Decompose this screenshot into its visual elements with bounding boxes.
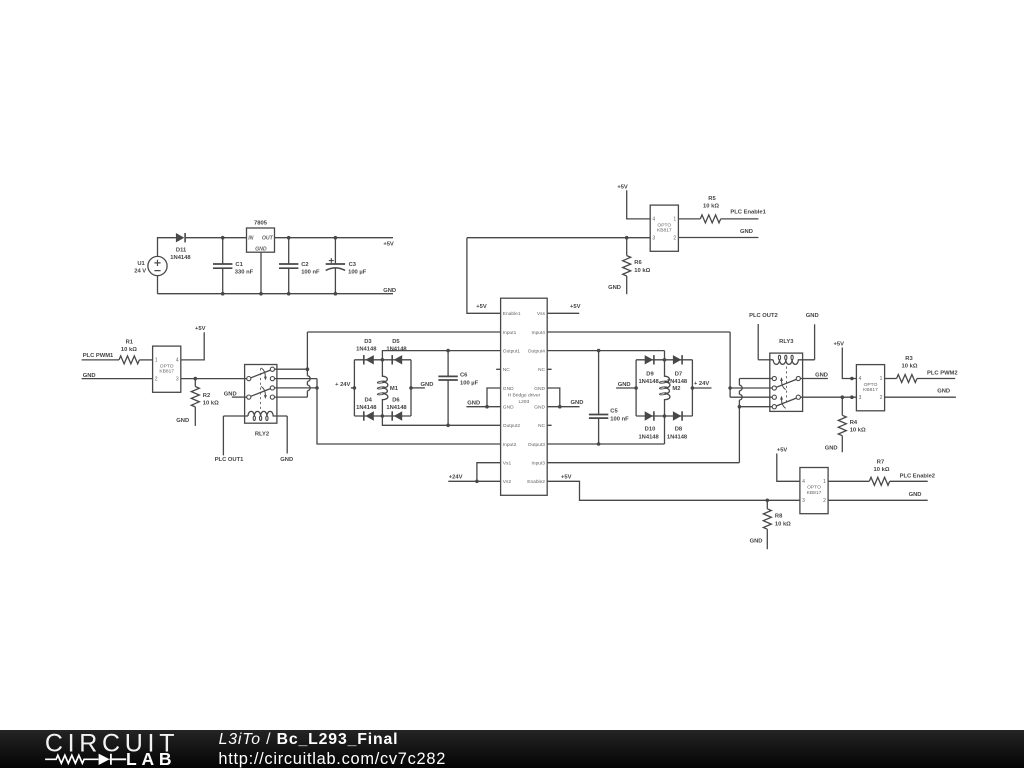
svg-text:D8: D8 <box>675 427 683 433</box>
svg-text:GND: GND <box>503 405 514 411</box>
wire opto pin2 to GND <box>885 396 956 398</box>
wire Input3 right <box>547 462 739 464</box>
svg-text:+ 24V: + 24V <box>335 382 350 388</box>
motor M2 coil <box>665 360 670 416</box>
svg-text:KB817: KB817 <box>807 490 822 496</box>
svg-text:10 kΩ: 10 kΩ <box>902 363 918 369</box>
svg-text:1N4148: 1N4148 <box>638 434 659 440</box>
RLY2 contact r1 <box>270 367 274 371</box>
svg-text:GND: GND <box>825 445 838 451</box>
junction <box>691 386 695 390</box>
svg-text:GND: GND <box>467 400 480 406</box>
svg-text:10 kΩ: 10 kΩ <box>703 204 719 210</box>
RLY3 contact r1 <box>796 376 800 380</box>
junction 7805 GND <box>259 292 263 296</box>
svg-text:4: 4 <box>859 376 862 382</box>
wire RLY2 r4 to node <box>275 396 308 398</box>
wire to L293 Input1 <box>307 331 500 333</box>
svg-text:C5: C5 <box>610 409 618 415</box>
L293 NC pin stubs <box>496 369 551 425</box>
svg-text:4: 4 <box>802 479 805 485</box>
wire +24V to Vs2 <box>448 480 500 482</box>
junction R2 top <box>194 377 198 381</box>
svg-text:3: 3 <box>859 395 862 401</box>
RLY2 contact l1 <box>247 377 251 381</box>
RLY2 arrow 2 <box>261 386 265 395</box>
svg-text:C2: C2 <box>301 262 308 268</box>
junction C3 top <box>334 236 338 240</box>
wire up to M2 bottom <box>664 416 666 444</box>
wire to R8 <box>766 500 768 509</box>
RLY2 contact l2 <box>247 395 251 399</box>
wire +5V to opto pin4 <box>627 190 651 219</box>
svg-text:KB817: KB817 <box>657 228 672 234</box>
svg-text:D4: D4 <box>364 397 372 403</box>
wire Input4 right <box>547 331 730 333</box>
junction C6 top <box>446 349 450 353</box>
svg-text:R1: R1 <box>126 340 134 346</box>
IC U2 L293 H-bridge driver <box>501 298 548 495</box>
relay RLY3 body <box>770 353 803 411</box>
RLY2 switch blade 2 <box>251 389 271 397</box>
wire U1 bottom <box>157 276 159 294</box>
wire RLY3 pole1 to GND <box>800 378 828 380</box>
wire RLY3 l4 <box>739 406 772 408</box>
svg-text:L3iTo / Bc_L293_Final: L3iTo / Bc_L293_Final <box>219 731 399 748</box>
svg-text:+5V: +5V <box>570 304 581 310</box>
svg-text:+5V: +5V <box>834 341 845 347</box>
svg-text:M2: M2 <box>672 386 680 392</box>
diode D4 1N4148 <box>363 411 365 420</box>
svg-text:Output3: Output3 <box>528 442 546 448</box>
RLY3 contact l4 <box>772 405 776 409</box>
svg-text:4: 4 <box>176 358 179 364</box>
svg-text:PLC OUT1: PLC OUT1 <box>215 457 244 463</box>
capacitor C1 330nF <box>222 238 224 294</box>
svg-text:R5: R5 <box>708 196 716 202</box>
svg-text:NC: NC <box>538 367 545 373</box>
svg-text:GND: GND <box>280 457 293 463</box>
svg-text:D5: D5 <box>392 339 400 345</box>
svg-text:C1: C1 <box>235 262 243 268</box>
wire GND to M2 bridge <box>616 387 636 389</box>
wire Enable2 to opto4 pin3 <box>547 481 800 500</box>
wire down to M2 top <box>664 351 666 360</box>
junction <box>306 367 310 371</box>
wire L293 GND right <box>547 406 579 408</box>
junction <box>315 386 319 390</box>
junction C6 bottom <box>446 424 450 428</box>
wire L293 GND left pair <box>487 388 501 407</box>
wire R2 to GND <box>194 407 196 426</box>
junction <box>728 386 732 390</box>
svg-text:GND: GND <box>421 382 434 388</box>
svg-text:GND: GND <box>806 313 819 319</box>
wire to R2 <box>194 379 196 387</box>
wire to R4 <box>841 397 843 415</box>
svg-text:1N4148: 1N4148 <box>356 405 377 411</box>
wire L293 GND left <box>466 406 500 408</box>
junction <box>634 386 638 390</box>
resistor R3 10k <box>897 375 917 383</box>
svg-text:GND: GND <box>909 492 922 498</box>
RLY3 contact l3 <box>772 395 776 399</box>
wire opto pin1 to R7 <box>828 480 869 482</box>
svg-text:PLC OUT2: PLC OUT2 <box>749 313 778 319</box>
svg-text:+5V: +5V <box>195 326 206 332</box>
resistor R2 10k <box>191 387 199 407</box>
svg-text:330 nF: 330 nF <box>235 269 254 275</box>
resistor R6 10k <box>623 256 631 276</box>
svg-text:+5V: +5V <box>617 185 628 191</box>
svg-text:http://circuitlab.com/cv7c282: http://circuitlab.com/cv7c282 <box>218 750 446 768</box>
RLY2 switch blade 1 <box>251 370 271 378</box>
wire bridge to GND <box>411 387 425 389</box>
diode D3 1N4148 <box>363 355 365 364</box>
diode D7 1N4148 <box>673 355 681 364</box>
svg-text:KB817: KB817 <box>863 387 878 393</box>
svg-text:RLY3: RLY3 <box>779 339 794 345</box>
wire R4 to GND <box>841 436 843 453</box>
svg-text:Input1: Input1 <box>503 330 517 336</box>
wire RLY2 coil lead left <box>223 415 248 417</box>
svg-text:GND: GND <box>608 285 621 291</box>
junction pin3 <box>850 395 854 399</box>
wire opto pin1 to R5 <box>678 218 700 220</box>
svg-text:R8: R8 <box>775 514 783 520</box>
svg-text:R4: R4 <box>850 420 858 426</box>
svg-text:R3: R3 <box>905 356 913 362</box>
svg-text:3: 3 <box>652 235 655 241</box>
svg-text:Output2: Output2 <box>503 423 521 429</box>
wire L293 GND right pair <box>547 388 560 407</box>
opto-coupler KB817 #4 <box>800 468 828 514</box>
wire RLY3 l2 <box>730 387 772 389</box>
svg-text:1N4148: 1N4148 <box>356 347 377 353</box>
RLY3 switch blade 2 <box>776 398 796 406</box>
junction M2 top <box>663 358 667 362</box>
wire coil to PLC OUT2 <box>757 324 759 360</box>
svg-text:U1: U1 <box>137 261 145 267</box>
svg-text:GND: GND <box>255 246 267 252</box>
junction <box>558 405 562 409</box>
wire bridge top to Output1 <box>382 351 500 360</box>
CircuitLab logo resistor <box>45 755 98 763</box>
svg-text:100 µF: 100 µF <box>460 380 479 386</box>
wire opto pin2 to GND <box>828 499 928 501</box>
svg-text:KB817: KB817 <box>159 369 174 375</box>
resistor R8 10k <box>763 509 771 529</box>
svg-text:10 kΩ: 10 kΩ <box>874 467 890 473</box>
svg-text:1: 1 <box>823 479 826 485</box>
M2 bridge frame <box>636 360 692 416</box>
svg-text:+5V: +5V <box>476 304 487 310</box>
svg-text:D10: D10 <box>645 427 656 433</box>
junction R6 <box>625 236 629 240</box>
wire R8 to GND <box>766 529 768 549</box>
wire RLY3 pole2 to opto pin3 <box>800 396 856 398</box>
junction pin4 <box>850 377 854 381</box>
svg-text:R2: R2 <box>203 393 210 399</box>
svg-text:PLC PWM2: PLC PWM2 <box>927 370 958 376</box>
wire R3 to PLC PWM2 <box>917 378 955 380</box>
svg-text:PLC Enable2: PLC Enable2 <box>900 473 935 479</box>
svg-text:Vs2: Vs2 <box>503 479 512 485</box>
svg-text:1N4148: 1N4148 <box>667 434 688 440</box>
capacitor C6 100uF <box>447 351 449 426</box>
svg-text:10 kΩ: 10 kΩ <box>850 428 866 434</box>
svg-text:Input2: Input2 <box>503 442 517 448</box>
wire GND to RLY2 pole 2 <box>232 396 247 398</box>
svg-text:GND: GND <box>176 418 189 424</box>
wire opto pin3 to RLY2 <box>181 378 247 380</box>
svg-text:NC: NC <box>503 367 510 373</box>
svg-text:OPTO: OPTO <box>160 363 174 369</box>
svg-text:24 V: 24 V <box>134 268 146 274</box>
RLY3 arrow 1 <box>782 381 786 390</box>
wire r2 down to r3 <box>316 379 318 388</box>
junction Vs2 <box>475 480 479 484</box>
wire RLY2 r2 <box>275 378 318 380</box>
svg-text:Vs1: Vs1 <box>503 461 512 467</box>
svg-text:GND: GND <box>937 388 950 394</box>
wire 7805 GND down <box>260 252 262 294</box>
svg-text:10 kΩ: 10 kΩ <box>203 401 219 407</box>
RLY3 contact l2 <box>772 386 776 390</box>
junction C5 top <box>597 349 601 353</box>
svg-text:GND: GND <box>503 386 514 392</box>
svg-text:NC: NC <box>538 423 545 429</box>
diode D5 1N4148 <box>391 355 393 364</box>
svg-text:Output1: Output1 <box>503 348 521 354</box>
wire down to RLY3 <box>729 332 731 397</box>
regulator 7805 <box>247 228 275 252</box>
svg-text:D9: D9 <box>646 371 654 377</box>
wire RLY2 r3 <box>275 387 318 389</box>
wire R6 to GND <box>626 276 628 294</box>
junction bridge left <box>353 386 357 390</box>
svg-text:+5V: +5V <box>383 242 394 248</box>
svg-text:Enable1: Enable1 <box>503 311 521 317</box>
wire R7 to PLC Enable2 <box>890 480 928 482</box>
svg-text:+5V: +5V <box>561 474 572 480</box>
svg-text:2: 2 <box>155 376 158 382</box>
diode D8 1N4148 <box>673 411 681 420</box>
RLY2 dashed link <box>260 368 262 409</box>
diode D6 1N4148 <box>391 411 393 420</box>
ground rail <box>158 293 394 295</box>
svg-text:3: 3 <box>802 498 805 504</box>
wire vertical with hops RLY3 <box>739 379 742 463</box>
svg-text:1: 1 <box>155 358 158 364</box>
svg-text:GND: GND <box>815 372 828 378</box>
svg-text:OPTO: OPTO <box>864 382 878 388</box>
svg-text:GND: GND <box>618 382 631 388</box>
RLY3 contact r2 <box>796 395 800 399</box>
motor M1 coil <box>382 360 387 416</box>
junction bridge right <box>409 386 413 390</box>
svg-text:R6: R6 <box>634 260 642 266</box>
svg-text:2: 2 <box>823 498 826 504</box>
svg-text:1N4148: 1N4148 <box>170 255 191 261</box>
svg-text:R7: R7 <box>877 459 884 465</box>
wire opto pin1 to R3 <box>885 378 897 380</box>
svg-text:C3: C3 <box>349 262 357 268</box>
wire Vs1 down <box>477 463 501 482</box>
capacitor C2 100nF <box>288 238 290 294</box>
wire RLY2 r1 to node <box>275 368 308 370</box>
resistor R5 10k <box>700 215 720 223</box>
svg-text:IN: IN <box>248 236 253 242</box>
svg-text:OUT: OUT <box>262 236 274 242</box>
svg-text:Output4: Output4 <box>528 348 546 354</box>
wire coil to GND <box>814 324 816 360</box>
RLY2 contact r2 <box>270 377 274 381</box>
wire Enable1 up <box>467 238 501 314</box>
svg-text:PLC PWM1: PLC PWM1 <box>83 353 114 359</box>
svg-text:RLY2: RLY2 <box>255 431 269 437</box>
svg-text:2: 2 <box>880 395 883 401</box>
resistor R7 10k <box>869 477 889 485</box>
wire opto pin2 to GND <box>678 237 758 239</box>
wire bridge bottom to Output2 <box>382 416 500 425</box>
wire 7805 OUT to +5V rail <box>275 237 394 239</box>
wire Output3 to M2 <box>547 443 664 445</box>
wire coil to PLC OUT1 <box>222 416 224 455</box>
RLY3 contact l1 <box>772 376 776 380</box>
svg-text:100 nF: 100 nF <box>610 416 629 422</box>
opto-coupler KB817 #3 <box>856 365 884 411</box>
svg-text:PLC Enable1: PLC Enable1 <box>730 210 766 216</box>
svg-text:GND: GND <box>534 405 545 411</box>
RLY2 contact r3 <box>270 386 274 390</box>
junction <box>738 405 742 409</box>
wire PLC PWM1 to R1 <box>82 359 119 361</box>
svg-text:GND: GND <box>750 539 763 545</box>
wire RLY3 l3 <box>730 396 772 398</box>
junction C5 bottom <box>597 442 601 446</box>
svg-text:1N4148: 1N4148 <box>386 405 407 411</box>
wire to L293 Input2 <box>317 388 501 444</box>
svg-text:GND: GND <box>740 229 753 235</box>
svg-text:GND: GND <box>383 288 396 294</box>
wire vertical with hops r1-r4 <box>307 332 310 397</box>
wire M2 bridge to +24V <box>692 387 711 389</box>
wire to R6 <box>626 238 628 256</box>
svg-text:D6: D6 <box>392 397 400 403</box>
svg-text:Input3: Input3 <box>532 461 546 467</box>
svg-text:100 nF: 100 nF <box>301 269 320 275</box>
wire +5V to opto pin4 <box>777 454 800 482</box>
svg-text:7805: 7805 <box>254 220 268 226</box>
junction R8 <box>766 499 770 503</box>
junction R4 <box>841 395 845 399</box>
wire D11 to 7805 IN <box>186 237 247 239</box>
svg-text:1: 1 <box>673 217 676 223</box>
svg-text:3: 3 <box>176 376 179 382</box>
junction M1 bottom <box>381 414 385 418</box>
CircuitLab logo diode <box>99 753 110 764</box>
svg-text:10 kΩ: 10 kΩ <box>634 268 650 274</box>
wire Enable1 row to opto pin3 <box>467 237 650 239</box>
junction C2 bottom <box>287 292 291 296</box>
diode D11 1N4148 <box>176 233 184 242</box>
wire +5V to opto pin4 <box>842 348 856 379</box>
svg-text:L293: L293 <box>518 399 529 405</box>
svg-text:GND: GND <box>571 400 584 406</box>
wire RLY3 coil lead left <box>758 359 773 361</box>
svg-text:+24V: +24V <box>449 474 463 480</box>
svg-text:Enable2: Enable2 <box>527 479 545 485</box>
wire opto pin4 to +5V <box>181 332 204 360</box>
opto-coupler KB817 #2 <box>650 205 678 251</box>
wire U1 top to D11 <box>158 238 176 257</box>
svg-text:10 kΩ: 10 kΩ <box>121 347 137 353</box>
svg-text:100 µF: 100 µF <box>348 269 367 275</box>
svg-text:+ 24V: + 24V <box>694 381 709 387</box>
junction C1 bottom <box>221 292 225 296</box>
svg-text:GND: GND <box>534 386 545 392</box>
junction C3 bottom <box>334 292 338 296</box>
relay RLY2 body <box>245 365 277 424</box>
capacitor C5 100nF <box>598 351 600 444</box>
wire RLY3 l1 <box>739 378 772 380</box>
diode D10 1N4148 <box>645 411 653 420</box>
svg-text:+5V: +5V <box>777 448 788 454</box>
RLY2 contact r4 <box>270 395 274 399</box>
junction M2 bottom <box>663 414 667 418</box>
svg-text:1N4148: 1N4148 <box>386 347 407 353</box>
wire Vss to +5V <box>547 312 579 314</box>
wire +24V to bridge <box>351 387 355 389</box>
RLY3 coil <box>773 360 814 365</box>
svg-text:10 kΩ: 10 kΩ <box>775 521 791 527</box>
resistor R4 10k <box>838 415 846 435</box>
svg-text:1: 1 <box>880 376 883 382</box>
voltage source U1 <box>148 256 167 275</box>
RLY2 coil <box>248 411 287 416</box>
svg-text:4: 4 <box>652 217 655 223</box>
svg-text:M1: M1 <box>390 386 399 392</box>
RLY2 arrow 1 <box>261 368 265 377</box>
svg-text:1N4148: 1N4148 <box>638 379 659 385</box>
svg-text:H Bridge driver: H Bridge driver <box>508 392 541 398</box>
resistor R1 10k <box>119 356 139 364</box>
svg-text:D3: D3 <box>364 339 372 345</box>
svg-text:Vss: Vss <box>537 311 546 317</box>
junction M1 top <box>381 358 385 362</box>
wire Output4 to M2 <box>547 350 664 352</box>
capacitor C3 100uF polarized <box>334 238 336 294</box>
RLY3 dashed link <box>786 367 788 404</box>
svg-text:D11: D11 <box>176 247 187 253</box>
junction <box>485 405 489 409</box>
wire GND to opto pin2 <box>82 378 153 380</box>
diode D9 1N4148 <box>645 355 653 364</box>
svg-text:C6: C6 <box>460 373 468 379</box>
svg-text:OPTO: OPTO <box>657 222 671 228</box>
wire R5 to PLC Enable1 <box>721 218 759 220</box>
wire R1 to opto pin1 <box>139 359 152 361</box>
svg-text:2: 2 <box>673 235 676 241</box>
svg-text:Input4: Input4 <box>532 330 546 336</box>
junction C1 top <box>221 236 225 240</box>
svg-text:OPTO: OPTO <box>807 485 821 491</box>
RLY3 arrow 2 <box>782 399 786 408</box>
opto-coupler KB817 #1 <box>153 346 181 392</box>
RLY3 switch blade 1 <box>776 379 796 387</box>
M1 bridge frame <box>354 360 411 416</box>
